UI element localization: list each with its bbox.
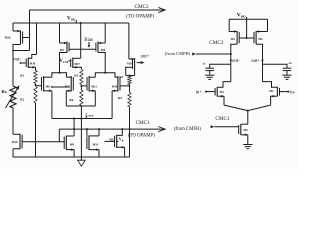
resistor Rx — [10, 86, 16, 108]
label Rx — [2, 89, 8, 94]
wire R1-R2 junction — [35, 84, 37, 87]
wire CMC2 vertical drop — [29, 10, 31, 51]
label out- — [232, 59, 240, 64]
capacitor c2 — [283, 61, 292, 71]
label I_CMFB — [86, 112, 94, 117]
wire M7-M8 gate line — [69, 48, 96, 50]
svg-text:R5: R5 — [74, 73, 78, 77]
wire M12 gate lead — [51, 86, 69, 88]
svg-text:CMC1: CMC1 — [136, 120, 151, 126]
wire Rx down — [12, 108, 14, 134]
svg-text:CMC1: CMC1 — [215, 116, 230, 122]
wire M12 source — [66, 90, 71, 106]
wire M4 drain — [256, 44, 262, 81]
label V_B — [119, 137, 124, 142]
svg-text:(TO OPAMP): (TO OPAMP) — [126, 15, 154, 20]
wire CMC2 output line — [30, 9, 165, 11]
transistor M5 — [239, 124, 249, 135]
svg-text:R6: R6 — [69, 98, 73, 102]
wire M5 drain — [241, 123, 248, 125]
ground left circuit — [78, 157, 86, 166]
wire M13 drain — [89, 76, 95, 78]
node out- gate dot — [20, 62, 22, 64]
node out+ node dot — [129, 75, 131, 77]
wire M17 drain — [73, 57, 81, 59]
wire rail right corner — [128, 23, 130, 59]
svg-text:M5: M5 — [243, 128, 248, 132]
wire tail left diagonal — [224, 105, 248, 111]
wire M18 gate lead — [120, 85, 130, 87]
wire M16 to R1 — [35, 67, 37, 70]
transistor M15 — [109, 135, 117, 148]
wire M6 gate lead — [36, 85, 42, 87]
svg-text:Rx: Rx — [2, 89, 8, 94]
wire M1 source — [217, 95, 224, 105]
transistor M10 — [12, 134, 22, 150]
svg-text:M7: M7 — [60, 48, 65, 52]
wire M16 rail drop — [36, 23, 38, 55]
svg-text:M8: M8 — [101, 48, 106, 52]
svg-text:out+: out+ — [251, 59, 260, 64]
wire M3 drain — [231, 44, 237, 81]
resistor R1 — [20, 71, 37, 84]
wire M15 gate lead — [105, 140, 115, 142]
label out+ — [251, 59, 260, 64]
svg-text:M4: M4 — [258, 37, 263, 41]
resistor R2 — [20, 87, 37, 104]
label CMC2 right — [209, 40, 224, 46]
wire M2 drain — [263, 82, 278, 88]
wire CMFB bus — [52, 118, 112, 120]
svg-text:in+: in+ — [196, 90, 203, 95]
wire M8 drain — [98, 53, 105, 73]
wire Bias stub — [88, 42, 91, 48]
power VDD rail left — [13, 22, 129, 24]
wire gate bridge — [239, 37, 254, 39]
label CMC1 right — [215, 116, 230, 122]
label (from CMFB) top — [165, 51, 191, 56]
svg-text:c2: c2 — [289, 61, 292, 65]
ground M5 — [243, 145, 252, 149]
label CMC2 — [135, 4, 150, 10]
transistor M20 — [5, 30, 30, 45]
wire M14 drain — [89, 129, 99, 136]
svg-text:R4: R4 — [118, 96, 122, 100]
label Bias — [84, 38, 93, 43]
wire tail vertical — [247, 111, 249, 125]
svg-text:CMC2: CMC2 — [209, 40, 224, 46]
wire M7 rail drop — [59, 23, 61, 43]
wire box bottom — [66, 105, 95, 107]
wire M20 source drop — [12, 23, 14, 31]
wire M20 drain — [13, 45, 30, 51]
svg-text:M14: M14 — [93, 142, 99, 146]
wire CMC1 line — [59, 128, 164, 130]
node CMC1 dots — [73, 128, 130, 130]
wire R2 down — [35, 103, 37, 157]
node in+ dot — [205, 91, 207, 93]
svg-text:out-: out- — [232, 59, 240, 64]
wire M5 source — [241, 134, 248, 145]
wire M6 drain — [44, 76, 52, 78]
wire right chain down — [129, 107, 131, 157]
transistor M1 — [215, 87, 224, 97]
resistor R6 — [69, 90, 83, 106]
wire M14 source — [89, 148, 99, 157]
wire M18 source — [112, 90, 118, 119]
wire c1 ground lead — [209, 71, 211, 75]
transistor M7 — [60, 42, 70, 53]
node M20 drain junction — [12, 50, 14, 52]
svg-text:CMC2: CMC2 — [135, 4, 150, 10]
svg-text:M9: M9 — [70, 143, 75, 147]
wire M1 drain — [217, 82, 231, 88]
wire c1 lead — [210, 64, 231, 68]
wire M8 rail drop — [104, 23, 106, 43]
node CMC2-out- junction — [230, 53, 232, 55]
svg-text:R1: R1 — [20, 74, 24, 78]
label VDD left — [67, 15, 76, 21]
svg-text:out-: out- — [13, 58, 21, 63]
node in- dot — [287, 91, 289, 93]
wire M16 source — [28, 66, 35, 69]
wire mirror gate line bottom — [22, 141, 65, 143]
node gate bridge dot — [246, 37, 248, 39]
node left bridge dot — [59, 72, 61, 74]
transistor M14 — [87, 136, 99, 151]
transistor M6 — [42, 76, 51, 92]
label VDD right — [237, 12, 246, 18]
wire M12 drain — [67, 76, 72, 78]
svg-text:M1: M1 — [220, 90, 225, 94]
wire V_CM lead — [68, 60, 71, 62]
resistor R3 — [119, 75, 131, 84]
wire center chain down — [80, 106, 82, 158]
wire M9 drain — [66, 119, 74, 137]
svg-text:R2: R2 — [20, 98, 24, 102]
label out+ left-circuit — [141, 55, 150, 60]
svg-text:(from CMFB): (from CMFB) — [165, 51, 191, 56]
node box bottom center — [81, 105, 83, 107]
svg-text:M6: M6 — [46, 84, 51, 88]
wire VDD tick left — [75, 20, 77, 23]
wire left column — [12, 51, 14, 87]
wire M13 source — [89, 90, 95, 106]
transistor M16 — [26, 58, 36, 69]
resistor R4 — [118, 93, 131, 108]
svg-text:M18: M18 — [112, 84, 118, 88]
label in- — [290, 90, 296, 95]
wire M7 drain — [60, 53, 68, 73]
wire c2 ground lead — [286, 71, 288, 75]
transistor M17 — [71, 58, 81, 68]
wire M5 gate line — [211, 125, 239, 128]
node center rail dot — [80, 22, 82, 24]
svg-text:M19: M19 — [127, 62, 133, 66]
node right bridge dot — [104, 72, 106, 74]
node out- dot — [230, 59, 232, 61]
transistor M8 — [96, 42, 106, 53]
wire center vertical — [246, 19, 248, 38]
svg-text:M16: M16 — [30, 62, 36, 66]
wire M10 source — [13, 149, 20, 157]
svg-text:VCM: VCM — [59, 59, 68, 64]
transistor M3 — [229, 30, 239, 44]
label (from CMFB) bottom — [174, 127, 201, 132]
wire M6 source — [44, 90, 52, 119]
label out- left — [13, 58, 21, 63]
wire I_CMFB tick — [85, 116, 87, 119]
wire VDD tick right — [246, 17, 248, 19]
wire M14 gate tap — [86, 129, 88, 136]
resistor R5 — [74, 70, 83, 85]
transistor M19 — [127, 58, 135, 70]
wire CMC2 input line — [192, 53, 231, 56]
wire M2 gate lead — [280, 91, 289, 93]
wire rail corner left — [228, 19, 230, 31]
wire R3-R4 mid — [129, 85, 131, 93]
wire out+ node line — [126, 75, 135, 77]
wire center rail drop — [80, 23, 82, 58]
svg-text:(from CMFB): (from CMFB) — [174, 127, 201, 132]
ground c2 — [282, 75, 291, 79]
wire Rx arrow — [6, 84, 21, 108]
node tail dot — [247, 110, 249, 112]
svg-text:c1: c1 — [203, 61, 206, 65]
wire M16 drain elbow — [28, 55, 36, 59]
svg-text:M17: M17 — [74, 62, 80, 66]
label (TO OPAMP) top — [126, 15, 154, 20]
wire M15 source — [117, 146, 125, 157]
wire M15 drain — [117, 129, 123, 135]
wire M13 gate lead — [81, 85, 88, 87]
wire M10 drain — [13, 133, 20, 136]
wire M19 gate lead — [126, 67, 133, 75]
transistor M13 — [87, 76, 97, 92]
wire left bridge — [52, 73, 67, 78]
label V_CM — [59, 59, 68, 64]
svg-text:M12: M12 — [65, 84, 71, 88]
wire c2 lead — [263, 64, 288, 68]
node out+ dot — [262, 59, 264, 61]
svg-text:R3: R3 — [119, 75, 123, 79]
wire M1 gate lead — [206, 91, 215, 93]
wire M18 drain — [115, 76, 118, 78]
wire V_B tick — [117, 140, 118, 142]
label in+ — [196, 90, 203, 95]
wire bottom rail left — [13, 156, 130, 158]
svg-text:out+: out+ — [141, 55, 150, 60]
wire rail corner right — [267, 19, 269, 31]
wire M2 source — [271, 95, 278, 105]
wire M17 source — [73, 66, 82, 69]
transistor M2 — [269, 87, 279, 97]
node CMC1 arrowhead — [158, 127, 165, 132]
label (TO OPAMP) bottom — [128, 133, 155, 138]
node gate line crossing R2 — [35, 141, 37, 143]
svg-text:M13: M13 — [91, 84, 97, 88]
wire R5-R6 mid — [81, 85, 83, 91]
svg-text:(TO OPAMP): (TO OPAMP) — [128, 133, 155, 138]
power VDD rail right — [229, 18, 267, 20]
svg-text:in-: in- — [290, 90, 296, 95]
label CMC1 — [136, 120, 151, 126]
wire out+ tap — [137, 61, 145, 64]
wire M19 drain — [134, 70, 136, 76]
transistor M9 — [64, 136, 74, 151]
capacitor c1 — [203, 61, 214, 70]
svg-text:M10: M10 — [12, 140, 18, 144]
transistor M18 — [112, 76, 120, 92]
ground c1 — [205, 75, 214, 79]
svg-text:M20: M20 — [5, 36, 11, 40]
svg-text:M2: M2 — [269, 89, 274, 93]
node CMC2 arrowhead — [158, 7, 165, 12]
svg-text:M3: M3 — [231, 37, 236, 41]
transistor M12 — [65, 76, 74, 92]
wire CMC1 left drop — [58, 129, 60, 142]
transistor M4 — [254, 30, 268, 44]
wire M16 gate lead — [21, 62, 27, 64]
wire M9 source — [66, 148, 74, 157]
wire tail right diagonal — [248, 105, 271, 111]
node bus dots — [73, 118, 82, 120]
wire right bridge — [95, 73, 115, 78]
